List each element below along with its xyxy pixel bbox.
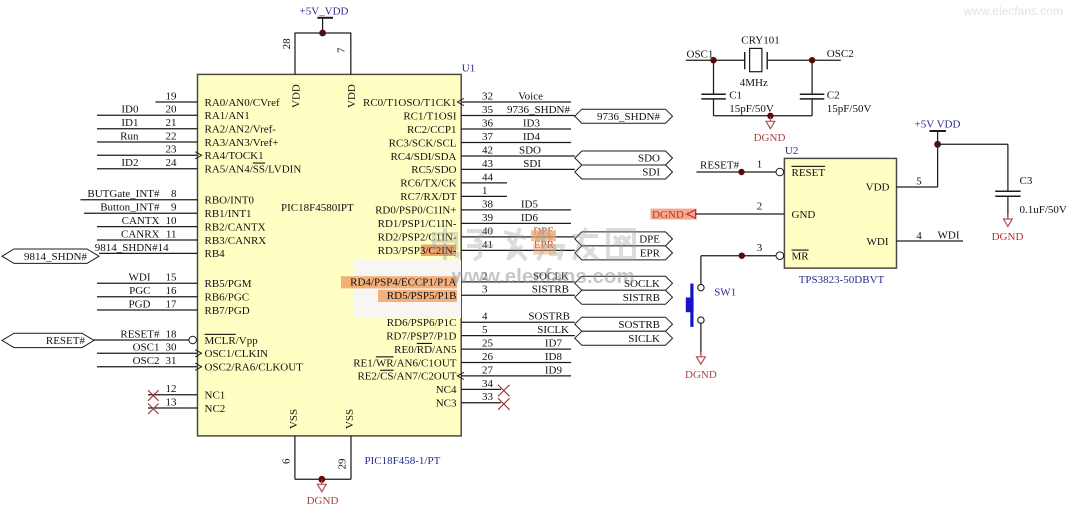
svg-text:1: 1 [482, 185, 488, 197]
svg-text:DGND: DGND [685, 369, 717, 381]
svg-text:10: 10 [166, 215, 178, 227]
svg-text:RB6/PGC: RB6/PGC [205, 292, 250, 304]
SW1 designator [714, 287, 736, 299]
U1 part number [281, 202, 354, 214]
svg-text:WDI: WDI [129, 272, 151, 284]
svg-text:31: 31 [166, 355, 177, 367]
svg-text:SICLK: SICLK [628, 333, 660, 345]
svg-text:RA4/TOCK1: RA4/TOCK1 [205, 150, 264, 162]
svg-text:CANRX: CANRX [121, 228, 160, 240]
svg-text:5: 5 [916, 176, 922, 188]
wire +5V to C3 [938, 144, 1008, 190]
C3 designator [1020, 175, 1033, 187]
svg-text:VSS: VSS [288, 409, 300, 429]
svg-text:ID8: ID8 [545, 351, 563, 363]
svg-text:PGD: PGD [128, 298, 150, 310]
DGND highlight at U2 pin 2 [651, 209, 697, 220]
svg-text:RC7/RX/DT: RC7/RX/DT [400, 191, 457, 203]
svg-text:27: 27 [482, 364, 494, 376]
svg-text:20: 20 [166, 104, 178, 116]
svg-text:NC2: NC2 [205, 403, 226, 415]
svg-text:1: 1 [757, 159, 763, 171]
off-page port 9736_SHDN# [575, 109, 673, 123]
svg-text:U2: U2 [785, 145, 798, 157]
svg-text:33: 33 [482, 391, 494, 403]
U1 footprint label [365, 455, 441, 467]
svg-text:OSC1/CLKIN: OSC1/CLKIN [205, 348, 269, 360]
U1 left pin 30 wire (OSC1) [97, 342, 198, 354]
pin number 3 [757, 242, 763, 254]
svg-text:SDO: SDO [638, 153, 660, 165]
svg-text:ID1: ID1 [121, 117, 138, 129]
U1 right pin 26 wire (ID8) [461, 351, 571, 363]
svg-text:2: 2 [757, 201, 763, 213]
svg-text:19: 19 [166, 90, 178, 102]
off-page port SDO [575, 151, 673, 165]
crystal CRY101 symbol [745, 48, 768, 71]
svg-text:SDO: SDO [519, 144, 541, 156]
svg-text:24: 24 [166, 157, 178, 169]
svg-text:32: 32 [482, 90, 493, 102]
svg-text:NC3: NC3 [436, 398, 457, 410]
svg-text:DGND: DGND [652, 209, 684, 221]
svg-text:9: 9 [171, 202, 177, 214]
off-page port EPR [575, 246, 673, 260]
pin number 4 [916, 230, 922, 242]
U1 right pin names [350, 97, 457, 410]
U1 right pin 41 wire (EPR) [461, 239, 575, 251]
svg-text:7: 7 [336, 47, 348, 53]
svg-text:6: 6 [280, 458, 292, 464]
svg-text:SICLK: SICLK [537, 324, 569, 336]
U1 right pin 38 wire (ID5) [461, 198, 571, 210]
U2 reference designator [785, 145, 798, 157]
U1 left pin 18 wire (RESET#) [94, 328, 197, 343]
svg-text:4: 4 [482, 311, 488, 323]
U1 left pin 11 wire (CANRX) [97, 228, 198, 240]
pin number 6 (VSS) [280, 458, 292, 464]
svg-text:RC6/TX/CK: RC6/TX/CK [400, 178, 456, 190]
pin number 1 [757, 159, 763, 171]
svg-text:OSC2: OSC2 [133, 355, 160, 367]
svg-text:+5V_VDD: +5V_VDD [300, 6, 349, 18]
svg-text:RB3/CANRX: RB3/CANRX [205, 235, 267, 247]
svg-text:EPR: EPR [640, 248, 661, 260]
off-page port SISTRB [575, 290, 673, 304]
U2 pin name MR [792, 251, 810, 263]
off-page port SICLK [575, 331, 673, 345]
svg-text:43: 43 [482, 158, 494, 170]
U1 left pin 10 wire (CANTX) [97, 215, 198, 227]
U1 right pin 42 wire (SDO) [461, 144, 575, 156]
switch SW1 [686, 284, 704, 327]
svg-text:CRY101: CRY101 [741, 35, 780, 47]
svg-text:VSS: VSS [344, 409, 356, 429]
U2 part number TPS3823-50DBVT [799, 274, 885, 286]
svg-text:ID6: ID6 [521, 212, 539, 224]
svg-text:9814_SHDN#14: 9814_SHDN#14 [95, 242, 169, 254]
svg-text:RD4/PSP4/ECCP1/P1A: RD4/PSP4/ECCP1/P1A [350, 277, 456, 289]
U1 right pin 36 wire (ID3) [461, 117, 571, 129]
svg-text:SDI: SDI [523, 158, 541, 170]
svg-text:BUTGate_INT#: BUTGate_INT# [87, 188, 160, 200]
power symbol +5V VDD [915, 119, 961, 132]
svg-text:RD6/PSP6/P1C: RD6/PSP6/P1C [387, 317, 457, 329]
junction OSC1/C1 [710, 57, 716, 63]
power symbol +5V_VDD [300, 6, 349, 34]
U1 reference designator [462, 62, 475, 74]
svg-text:ID0: ID0 [121, 104, 139, 116]
svg-text:Run: Run [120, 130, 139, 142]
svg-text:9814_SHDN#: 9814_SHDN# [24, 251, 87, 263]
power symbol DGND (arrow) at U2 pin 2 [652, 209, 696, 221]
U1 right pin 3 wire (SISTRB) [461, 284, 575, 296]
off-page port SOSTRB [575, 317, 673, 331]
svg-text:39: 39 [482, 212, 494, 224]
svg-text:NC4: NC4 [436, 384, 457, 396]
wire VSS pins to ground rail [295, 436, 351, 479]
svg-text:TPS3823-50DBVT: TPS3823-50DBVT [799, 274, 885, 286]
svg-text:RE2/CS/AN7/C2OUT: RE2/CS/AN7/C2OUT [357, 371, 456, 383]
U1 left pin names [205, 97, 304, 415]
svg-text:15pF/50V: 15pF/50V [827, 103, 872, 115]
svg-text:RC5/SDO: RC5/SDO [411, 164, 456, 176]
VSS pin name (pin 6) [288, 409, 300, 429]
U1 left pin 15 wire (WDI) [97, 272, 198, 284]
U1 right pin 34 wire (n/c) [461, 378, 509, 397]
svg-text:ID2: ID2 [121, 157, 138, 169]
pin 27 input arrow [457, 372, 464, 379]
wire DGND to U2 pin 2 [696, 213, 785, 215]
svg-text:RB5/PGM: RB5/PGM [205, 278, 252, 290]
svg-text:RC2/CCP1: RC2/CCP1 [407, 124, 457, 136]
svg-text:DGND: DGND [754, 132, 786, 144]
svg-text:16: 16 [166, 285, 178, 297]
ground DGND below SW1 [685, 352, 717, 381]
svg-text:28: 28 [281, 38, 293, 50]
pin 31 OSC2 arrow [195, 363, 201, 370]
svg-text:RB2/CANTX: RB2/CANTX [205, 221, 266, 233]
svg-text:WDI: WDI [938, 230, 960, 242]
svg-text:RD0/PSP0/C1IN+: RD0/PSP0/C1IN+ [375, 205, 456, 217]
wire SW1 to ground [700, 323, 702, 355]
junction at +5V_VDD [319, 30, 326, 37]
U1 right pin 27 wire (ID9) [461, 364, 571, 376]
net label OSC1 [687, 49, 714, 61]
supervisor U2 body [784, 158, 896, 268]
svg-text:18: 18 [166, 328, 178, 340]
junction on MR wire [739, 253, 745, 259]
junction ground rail [767, 113, 773, 119]
svg-text:11: 11 [166, 228, 177, 240]
U1 left pin 14 wire (9814_SHDN#) [95, 242, 198, 254]
svg-text:DPE: DPE [639, 234, 660, 246]
svg-text:35: 35 [482, 104, 494, 116]
svg-text:RD7/PSP7/P1D: RD7/PSP7/P1D [386, 330, 456, 342]
svg-text:NC1: NC1 [205, 390, 226, 402]
svg-text:Button_INT#: Button_INT# [100, 202, 160, 214]
C2 designator [827, 90, 840, 102]
ground DGND below crystal caps [754, 116, 786, 144]
off-page port RESET# [2, 333, 94, 347]
U1 right pin 32 wire (Voice) [461, 90, 571, 102]
svg-text:RB7/PGD: RB7/PGD [205, 305, 250, 317]
wire U2 pin 3 to SW1 [701, 252, 784, 284]
off-page port 9814_SHDN# [2, 249, 99, 263]
U1 left pin 20 wire (ID0) [97, 104, 198, 116]
pin 23 RA4 clock arrow [195, 152, 201, 159]
junction at VSS rail [318, 476, 325, 483]
svg-text:3: 3 [757, 242, 763, 254]
off-page port SOCLK [575, 276, 673, 290]
junction +5V/C3 [934, 141, 941, 148]
svg-text:VDD: VDD [346, 84, 358, 108]
wire U2 pin 4 WDI [897, 240, 964, 242]
watermark chinese characters [434, 228, 634, 260]
U1 right pin 1 wire (n/c) [461, 185, 507, 197]
U1 right pin 5 wire (SICLK) [461, 324, 575, 336]
svg-text:RE0/RD/AN5: RE0/RD/AN5 [394, 344, 457, 356]
U1 left pin 21 wire (ID1) [97, 117, 198, 129]
svg-text:MCLR/Vpp: MCLR/Vpp [205, 335, 259, 347]
U1 left pin 8 wire (BUTGate_INT#) [81, 188, 198, 200]
svg-text:PIC18F4580IPT: PIC18F4580IPT [281, 202, 354, 214]
U1 left pin 23 wire (n/c) [97, 144, 198, 156]
svg-text:RD5/PSP5/P1B: RD5/PSP5/P1B [387, 290, 457, 302]
net label WDI [938, 230, 960, 242]
junction OSC2/C2 [809, 57, 815, 63]
U2 pin name VDD [866, 182, 890, 194]
svg-text:SDI: SDI [642, 167, 660, 179]
net label RESET# at U2 pin 1 [700, 160, 740, 172]
wire U2 pin 5 to +5V [897, 131, 938, 187]
svg-text:RA5/AN4/SS/LVDIN: RA5/AN4/SS/LVDIN [205, 164, 302, 176]
svg-text:RC1/T1OSI: RC1/T1OSI [403, 110, 457, 122]
U1 right pin 44 wire (n/c) [461, 171, 507, 183]
C2 value 15pF/50V [827, 103, 872, 115]
svg-text:VDD: VDD [290, 84, 302, 108]
svg-text:5: 5 [482, 324, 488, 336]
svg-text:RESET#: RESET# [46, 335, 86, 347]
U1 left pin 12 wire (n/c) [148, 383, 198, 401]
svg-text:4MHz: 4MHz [740, 77, 768, 89]
pin number 2 [757, 201, 763, 213]
U1 right pin 4 wire (SOSTRB) [461, 311, 575, 323]
svg-text:25: 25 [482, 338, 494, 350]
U1 left pin 9 wire (Button_INT#) [84, 202, 198, 214]
pin number 29 (VSS) [336, 458, 348, 470]
svg-text:SOSTRB: SOSTRB [528, 311, 570, 323]
svg-text:0.1uF/50V: 0.1uF/50V [1020, 204, 1067, 216]
svg-text:RA0/AN0/CVref: RA0/AN0/CVref [205, 97, 280, 109]
svg-text:15pF/50V: 15pF/50V [729, 103, 774, 115]
svg-text:ID5: ID5 [521, 198, 539, 210]
wire ground rail C1-C2 [714, 115, 813, 117]
svg-text:C2: C2 [827, 90, 840, 102]
svg-text:Voice: Voice [518, 90, 543, 102]
net label OSC2 [827, 48, 854, 60]
svg-text:RESET#: RESET# [700, 160, 740, 172]
wire VDD rail to pins 28 and 7 [295, 33, 351, 75]
U1 right pin 40 wire (DPE) [461, 225, 575, 237]
svg-text:www.elecfans.com: www.elecfans.com [451, 265, 635, 288]
capacitor C3 [995, 191, 1020, 217]
capacitor C2 [800, 60, 825, 116]
svg-text:42: 42 [482, 144, 493, 156]
U1 right pin 2 wire (SOCLK) [461, 270, 575, 282]
svg-text:RB4: RB4 [205, 248, 226, 260]
svg-text:U1: U1 [462, 62, 475, 74]
VDD pin name (pin 28) [290, 84, 302, 108]
svg-text:9736_SHDN#: 9736_SHDN# [507, 104, 570, 116]
pin 32 input arrow [457, 98, 464, 105]
svg-text:9736_SHDN#: 9736_SHDN# [597, 111, 660, 123]
svg-text:26: 26 [482, 351, 494, 363]
U1 right pin 37 wire (ID4) [461, 131, 571, 143]
svg-text:RC3/SCK/SCL: RC3/SCK/SCL [389, 137, 457, 149]
U1 left pin 22 wire (Run) [97, 130, 198, 142]
crystal CRY101 designator [741, 35, 780, 47]
svg-text:RE1/WR/AN6/C1OUT: RE1/WR/AN6/C1OUT [353, 357, 457, 369]
pin number 28 (VDD) [281, 38, 293, 50]
wire OSC1 to crystal [686, 59, 745, 61]
svg-text:PGC: PGC [129, 285, 150, 297]
svg-text:DGND: DGND [992, 231, 1024, 243]
svg-text:RB1/INT1: RB1/INT1 [205, 208, 252, 220]
svg-text:SOSTRB: SOSTRB [618, 319, 660, 331]
svg-text:36: 36 [482, 117, 494, 129]
svg-text:OSC2: OSC2 [827, 48, 854, 60]
svg-text:ID7: ID7 [545, 338, 563, 350]
pin 30 OSC1 arrow [195, 350, 201, 357]
svg-text:8: 8 [171, 188, 177, 200]
U2 pin name RESET [792, 167, 826, 179]
pin number 7 (VDD) [336, 47, 348, 53]
selection highlight pale rectangle [354, 260, 461, 318]
svg-text:37: 37 [482, 131, 494, 143]
svg-text:RESET: RESET [792, 167, 826, 179]
svg-text:RBO/INT0: RBO/INT0 [205, 195, 255, 207]
svg-text:12: 12 [166, 383, 177, 395]
svg-text:44: 44 [482, 171, 494, 183]
svg-text:OSC1: OSC1 [687, 49, 714, 61]
off-page port SDI [575, 165, 673, 179]
watermark url center [451, 265, 635, 288]
microcontroller U1 body [198, 74, 462, 436]
U2 pin name GND [792, 209, 816, 221]
wire crystal to OSC2 [767, 59, 841, 61]
svg-text:22: 22 [166, 130, 177, 142]
svg-text:17: 17 [166, 298, 178, 310]
svg-text:38: 38 [482, 198, 494, 210]
U1 right pin 33 wire (n/c) [461, 391, 509, 410]
U2 pin name WDI [867, 236, 889, 248]
svg-text:OSC1: OSC1 [133, 342, 160, 354]
svg-text:SISTRB: SISTRB [623, 292, 660, 304]
svg-text:C3: C3 [1020, 175, 1033, 187]
svg-text:ID4: ID4 [523, 131, 541, 143]
svg-text:RC4/SDI/SDA: RC4/SDI/SDA [390, 151, 456, 163]
svg-text:DGND: DGND [307, 495, 339, 507]
U1 left pin 17 wire (PGD) [97, 298, 198, 310]
U1 left pin 13 wire (n/c) [148, 396, 198, 414]
svg-text:34: 34 [482, 378, 494, 390]
svg-text:SW1: SW1 [714, 287, 736, 299]
svg-text:29: 29 [336, 458, 348, 470]
svg-text:21: 21 [166, 117, 177, 129]
svg-text:13: 13 [166, 396, 178, 408]
svg-text:RC0/T1OSO/T1CK1: RC0/T1OSO/T1CK1 [363, 97, 457, 109]
svg-text:C1: C1 [729, 90, 742, 102]
U1 left pin 31 wire (OSC2) [97, 355, 198, 367]
off-page port DPE [575, 232, 673, 246]
U1 left pin 19 wire (n/c) [156, 90, 198, 102]
VSS pin name (pin 29) [344, 409, 356, 429]
C3 value 0.1uF/50V [1020, 204, 1067, 216]
svg-text:GND: GND [792, 209, 816, 221]
orange OCR highlight patches [341, 230, 556, 302]
svg-text:RA2/AN2/Vref-: RA2/AN2/Vref- [205, 124, 277, 136]
ground DGND below C3 [992, 214, 1024, 243]
pin number 5 [916, 176, 922, 188]
svg-text:30: 30 [166, 342, 178, 354]
junction on RESET# wire [738, 169, 744, 175]
svg-text:MR: MR [792, 251, 810, 263]
wire RESET# to U2 pin 1 [696, 168, 783, 176]
watermark url top right [963, 4, 1063, 18]
svg-text:+5V VDD: +5V VDD [915, 119, 961, 131]
svg-text:ID9: ID9 [545, 364, 563, 376]
U1 left pin 16 wire (PGC) [97, 285, 198, 297]
svg-text:RESET#: RESET# [120, 328, 160, 340]
svg-text:www.elecfans.com: www.elecfans.com [963, 4, 1063, 18]
U1 left pin 24 wire (ID2) [97, 157, 198, 169]
svg-text:WDI: WDI [867, 236, 889, 248]
svg-text:CANTX: CANTX [122, 215, 160, 227]
svg-text:4: 4 [916, 230, 922, 242]
C1 designator [729, 90, 742, 102]
VDD pin name (pin 7) [346, 84, 358, 108]
svg-text:RA3/AN3/Vref+: RA3/AN3/Vref+ [205, 137, 279, 149]
capacitor C1 [701, 60, 726, 116]
C1 value 15pF/50V [729, 103, 774, 115]
U1 right pin 39 wire (ID6) [461, 212, 571, 224]
U1 right pin 35 wire (9736_SHDN#) [461, 104, 575, 116]
crystal value 4MHz [740, 77, 768, 89]
svg-text:VDD: VDD [866, 182, 890, 194]
ground DGND below U1 [307, 479, 339, 507]
svg-text:OSC2/RA6/CLKOUT: OSC2/RA6/CLKOUT [205, 362, 304, 374]
U1 right pin 25 wire (ID7) [461, 338, 571, 350]
svg-text:ID3: ID3 [523, 117, 541, 129]
svg-text:PIC18F458-1/PT: PIC18F458-1/PT [365, 455, 441, 467]
svg-text:23: 23 [166, 144, 178, 156]
svg-text:15: 15 [166, 272, 178, 284]
U1 right pin 43 wire (SDI) [461, 158, 575, 170]
svg-text:RA1/AN1: RA1/AN1 [205, 110, 250, 122]
